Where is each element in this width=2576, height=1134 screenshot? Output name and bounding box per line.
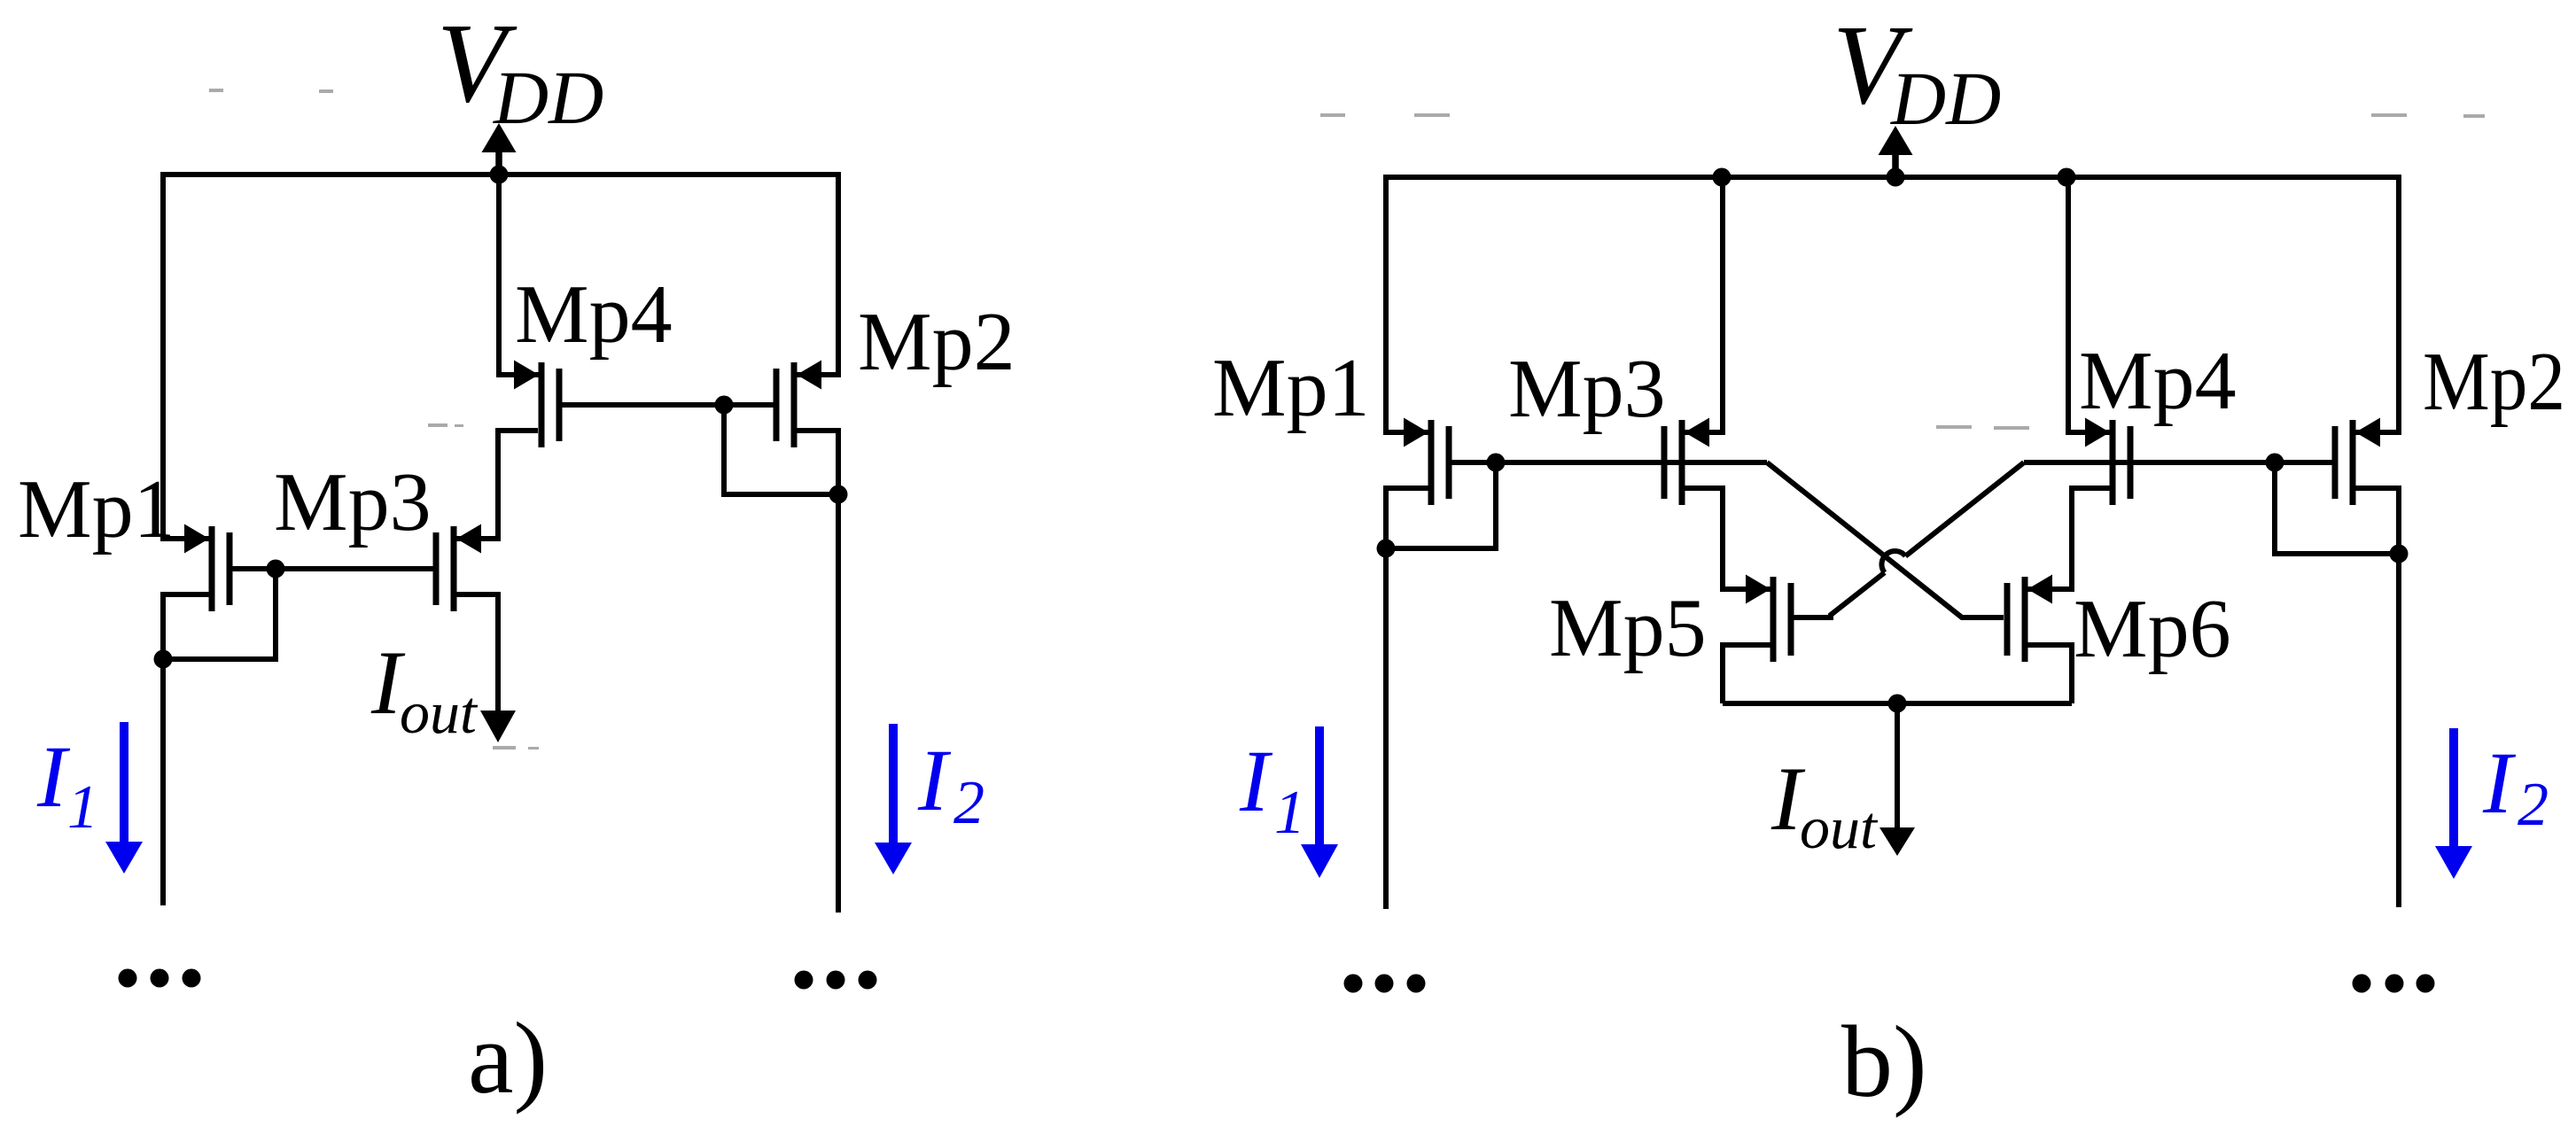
svg-text:1: 1 [1274,779,1305,847]
label Mp2 (b) [2423,336,2565,428]
junction drain node Mp2 (a) [829,485,848,504]
label Mp3 (a) [274,456,432,548]
junction rail left (b) [1713,168,1732,187]
wire Mp2 drain down (b) [2355,488,2399,907]
wire gate to drain link Mp2 (a) [724,405,836,494]
svg-text:2: 2 [2518,771,2549,839]
transistor Mp2 (b) [2335,418,2380,506]
label I1 (b) [1239,732,1305,847]
label b) [1841,1006,1927,1119]
label Mp1 (b) [1212,342,1370,434]
transistor Mp2 (a) [776,361,821,448]
junction gate node (a) [267,560,285,579]
net label VDD (b) [1833,2,2001,141]
svg-text:Mp2: Mp2 [2423,336,2565,428]
svg-text:Mp1: Mp1 [1212,342,1370,434]
wire gate Mp4-Mp2 (b) [2024,460,2332,465]
wire rail to Mp4 source (a) [499,175,539,375]
wire rail to Mp1 source (b) [1386,175,1428,432]
svg-text:I: I [36,727,71,826]
wire rail to Mp1 source (a) [163,172,209,539]
transistor Mp1 (b) [1404,418,1449,506]
junction gate node Mp2 (b) [2266,454,2284,472]
junction drain node Mp1 (b) [1377,540,1396,558]
label Mp4 (b) [2079,335,2237,427]
power symbol VDD arrow (a) [482,123,517,175]
label I1 (a) [36,727,98,842]
wire Mp6 drain down (b) [2027,645,2072,703]
label Mp1 (a) [18,463,175,555]
wire Mp4 drain to Mp6 source (b) [2027,488,2110,589]
current arrow I2 (b) [2435,728,2472,879]
svg-text:Mp5: Mp5 [1549,582,1707,674]
current arrow Iout (b) [1879,703,1915,856]
current arrow I1 (a) [105,722,143,874]
label Iout (b) [1771,749,1879,861]
power symbol VDD arrow (b) [1879,126,1913,177]
wire cross diagonal left (b) [1767,462,2004,617]
wire Mp2 drain down (a) [797,431,838,913]
svg-text:I: I [1239,732,1273,830]
ellipsis dots (a left) [119,969,201,988]
svg-text:Mp6: Mp6 [2074,583,2231,675]
label I2 (a) [917,731,984,837]
label I2 (b) [2482,734,2549,839]
svg-text:DD: DD [493,55,603,140]
wire Mp4 drain to Mp3 source (a) [456,431,538,539]
junction gate node Mp2 (a) [715,396,734,415]
transistor Mp6 (b) [2007,575,2052,663]
svg-text:Mp3: Mp3 [1508,343,1666,435]
svg-text:Mp4: Mp4 [2079,335,2237,427]
transistor Mp4 (a) [514,361,559,448]
label Mp6 (b) [2074,583,2231,675]
svg-text:1: 1 [67,773,98,842]
transistor Mp3 (a) [436,524,481,612]
net label VDD (a) [437,0,603,140]
wire cross diagonal right (b) [1794,462,2024,617]
wire Mp1 drain down (b) [1386,488,1428,909]
wire gate Mp1-Mp3 (b) [1452,460,1768,465]
label Mp4 (a) [515,268,673,361]
svg-text:I: I [2482,734,2517,832]
svg-text:Mp2: Mp2 [858,296,1016,388]
junction output node (b) [1888,695,1907,713]
svg-text:Mp4: Mp4 [515,268,673,361]
junction gate node Mp1 (b) [1487,454,1506,472]
ellipsis dots (a right) [795,971,877,990]
current arrow I2 (a) [875,724,912,874]
svg-text:Mp3: Mp3 [274,456,432,548]
svg-text:Mp1: Mp1 [18,463,175,555]
wire gate Mp1-Mp3 (a) [233,566,434,571]
current arrow I1 (b) [1301,726,1338,878]
wire VDD rail (a) [163,172,838,177]
wire gate to drain link Mp1 (a) [160,569,276,659]
junction VDD rail (a) [490,166,509,184]
svg-text:DD: DD [1890,56,2001,141]
label Mp3 (b) [1508,343,1666,435]
transistor Mp4 (b) [2085,418,2130,506]
wire VDD rail (b) [1386,175,2400,180]
svg-text:out: out [400,679,479,746]
wire Mp1 drain down (a) [163,594,209,905]
scan speck [209,89,2485,750]
wire Mp5 drain down (b) [1723,645,1771,703]
ellipsis dots (b right) [2353,975,2435,993]
transistor Mp1 (a) [184,524,230,612]
junction drain node Mp2 (b) [2390,545,2409,563]
junction rail right (b) [2058,168,2076,187]
svg-text:I: I [917,731,952,829]
label a) [468,1002,548,1115]
svg-text:2: 2 [953,769,984,837]
wire rail to Mp3 source (b) [1685,175,1723,432]
wire rail to Mp4 source (b) [2068,175,2110,432]
wire Mp3 drain to Mp5 source (b) [1685,488,1771,589]
ellipsis dots (b left) [1344,975,1426,993]
label Iout (a) [370,633,479,746]
transistor Mp5 (b) [1746,575,1791,663]
wire output rail (b) [1723,701,2072,706]
label Mp2 (a) [858,296,1016,388]
wire gate Mp4-Mp2 (a) [563,402,774,408]
wire gate to drain link Mp1 (b) [1383,462,1496,548]
wire Mp3 drain to Iout (a) [456,594,498,711]
transistor Mp3 (b) [1664,418,1709,506]
svg-text:out: out [1800,794,1879,861]
wire rail to Mp2 source (b) [2355,175,2399,432]
junction drain node Mp1 (a) [154,650,173,669]
wire gate to drain link Mp2 (b) [2275,462,2396,554]
svg-text:a): a) [468,1002,548,1115]
current arrow Iout (a) [480,711,516,742]
label Mp5 (b) [1549,582,1707,674]
svg-text:b): b) [1841,1006,1927,1119]
junction rail mid (b) [1887,168,1905,187]
wire rail to Mp2 source (a) [797,172,838,375]
